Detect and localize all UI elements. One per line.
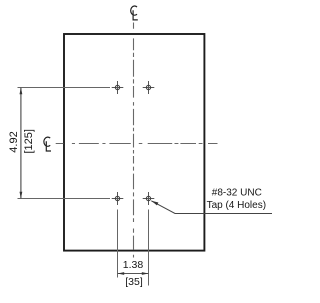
svg-text:[125]: [125]	[23, 129, 35, 153]
leader line	[151, 201, 272, 214]
extension line bottom	[18, 198, 111, 200]
dimension 1.38 [35] horizontal	[118, 210, 149, 289]
horizontal centerline	[56, 143, 218, 145]
hole top-right	[143, 81, 155, 94]
centerline symbol top	[131, 6, 138, 20]
hole bottom-right	[143, 192, 155, 205]
hole bottom-left	[112, 192, 124, 205]
arrowhead right	[142, 272, 149, 275]
arrowhead left	[118, 272, 125, 275]
leader arrowhead	[151, 201, 158, 206]
centerline symbol left	[44, 137, 51, 151]
dimension 4.92 [125] vertical	[8, 88, 110, 199]
arrowhead up	[20, 88, 23, 95]
dimension line horizontal	[118, 273, 149, 275]
vertical centerline	[133, 23, 135, 258]
leader note #8-32 UNC Tap (4 Holes)	[151, 187, 272, 213]
svg-text:Tap (4 Holes): Tap (4 Holes)	[207, 200, 266, 211]
svg-text:#8-32 UNC: #8-32 UNC	[212, 187, 262, 198]
extension line left	[117, 210, 119, 278]
svg-text:[35]: [35]	[125, 276, 143, 288]
arrowhead down	[20, 192, 23, 199]
dimension line vertical	[20, 88, 22, 199]
hole top-left	[112, 81, 124, 94]
svg-text:1.38: 1.38	[123, 259, 144, 271]
svg-text:4.92: 4.92	[8, 131, 20, 152]
extension line right	[148, 210, 150, 286]
extension line top	[18, 87, 111, 89]
plate outline	[64, 34, 204, 251]
